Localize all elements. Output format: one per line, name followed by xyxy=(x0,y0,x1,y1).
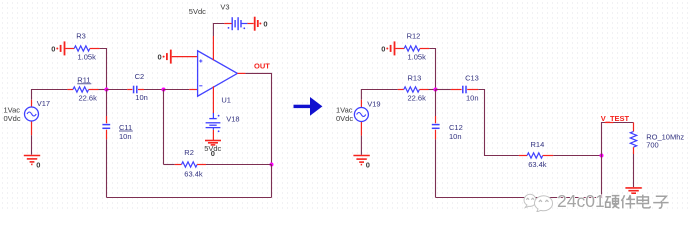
svg-text:V_TEST: V_TEST xyxy=(601,114,630,123)
resistor RO_10Mhz (vertical) xyxy=(633,123,635,132)
wire V17 top to R11 (node at main line y=89.5) xyxy=(32,90,68,100)
svg-text:0: 0 xyxy=(51,44,55,53)
svg-text:R2: R2 xyxy=(184,148,194,157)
svg-text:R3: R3 xyxy=(76,31,86,40)
voltage source V19 xyxy=(354,100,368,136)
junction node V_TEST xyxy=(600,154,604,158)
voltage source V17 xyxy=(25,100,39,135)
svg-text:C12: C12 xyxy=(449,123,463,132)
wire R2 to output node xyxy=(206,164,272,166)
capacitor C2 xyxy=(127,89,132,91)
battery V18 (vertical) xyxy=(212,113,214,118)
svg-text:R13: R13 xyxy=(408,74,422,83)
bottom rail xyxy=(107,197,272,199)
wire node C to C13 xyxy=(436,89,451,91)
wire RO down to ground xyxy=(633,154,635,187)
svg-text:63.4k: 63.4k xyxy=(528,160,547,169)
wire V17 bottom to ground xyxy=(31,135,33,154)
svg-text:10n: 10n xyxy=(119,132,132,141)
ground 0 at op-amp + input (rotated) xyxy=(167,50,171,64)
svg-text:0Vdc: 0Vdc xyxy=(4,114,21,123)
svg-text:5Vdc: 5Vdc xyxy=(189,7,206,16)
ground 0 below V19 xyxy=(353,156,369,165)
capacitor C11 (vertical) xyxy=(106,90,108,117)
junction node C xyxy=(434,88,438,92)
capacitor C13 xyxy=(451,89,462,91)
svg-text:0: 0 xyxy=(366,160,370,169)
feedback wire to R2 xyxy=(164,164,175,166)
svg-text:V3: V3 xyxy=(220,2,229,11)
resistor R14 xyxy=(519,153,553,158)
svg-text:0Vdc: 0Vdc xyxy=(336,114,353,123)
svg-text:0: 0 xyxy=(36,160,40,169)
wire ground to + input xyxy=(172,56,197,58)
ground 0 right of V3 (rotated) xyxy=(255,17,258,31)
svg-text:0: 0 xyxy=(158,53,162,62)
hanzi 电 xyxy=(637,195,650,208)
wire junction down to rail xyxy=(436,156,602,198)
svg-text:10n: 10n xyxy=(449,132,462,141)
svg-text:R11: R11 xyxy=(77,76,90,85)
svg-text:U1: U1 xyxy=(221,96,231,105)
resistor R12 xyxy=(395,46,429,51)
svg-text:V18: V18 xyxy=(226,115,239,124)
op-amp V- wire down to V18 xyxy=(212,86,214,113)
wire node B to op-amp inverting input xyxy=(164,89,190,91)
watermark hanzi 硬件电子 (drawn strokes) xyxy=(605,195,668,209)
svg-text:0: 0 xyxy=(263,20,267,29)
svg-text:C2: C2 xyxy=(135,72,145,81)
svg-text:22.6k: 22.6k xyxy=(79,93,98,102)
svg-text:V19: V19 xyxy=(367,100,380,109)
svg-text:R14: R14 xyxy=(531,140,545,149)
svg-text:22.6k: 22.6k xyxy=(408,93,427,102)
svg-text:24c01: 24c01 xyxy=(557,191,605,211)
svg-text:C11: C11 xyxy=(119,123,132,132)
wire C2 to node B xyxy=(144,89,164,91)
junction node B xyxy=(162,88,166,92)
hanzi 硬 xyxy=(605,196,619,209)
junction output node xyxy=(270,163,274,167)
wire node B down to R2 xyxy=(163,90,165,165)
ground 0 at R12 input (rotated) xyxy=(391,41,395,55)
wire V19 bottom to ground xyxy=(360,136,362,155)
battery V3 (horizontal) xyxy=(224,23,231,25)
svg-text:0: 0 xyxy=(381,44,385,53)
wire R12 down to node C xyxy=(429,49,435,90)
resistor R3 xyxy=(65,46,99,51)
svg-text:0: 0 xyxy=(211,149,215,158)
op-amp V+ wire up to V3 xyxy=(212,36,214,60)
wire output node down to rail xyxy=(271,165,273,198)
svg-text:V17: V17 xyxy=(37,99,50,108)
hanzi 子 xyxy=(653,196,668,208)
wire R13 to node C xyxy=(429,89,436,91)
resistor R13 xyxy=(398,87,429,92)
svg-text:1.05k: 1.05k xyxy=(78,52,97,61)
wire C12 down to bottom rail xyxy=(435,139,437,197)
svg-text:10n: 10n xyxy=(135,93,148,102)
blue arrow xyxy=(294,97,323,116)
wire R3 down to node A xyxy=(100,49,107,90)
resistor R11 xyxy=(67,87,98,92)
wire C11 down to bottom rail xyxy=(106,139,108,197)
op-amp U1 xyxy=(198,51,238,96)
svg-text:OUT: OUT xyxy=(254,61,270,70)
op-amp - mark xyxy=(199,85,202,87)
svg-text:R12: R12 xyxy=(407,31,421,40)
ground 0 below V18 xyxy=(205,141,221,145)
output wire OUT xyxy=(237,72,245,74)
ground 0 below V17 xyxy=(24,156,40,165)
ground 0 below RO xyxy=(625,188,641,193)
junction node A xyxy=(105,88,109,92)
resistor R2 xyxy=(175,162,206,167)
wire junction up and right to RO xyxy=(602,123,634,156)
svg-text:C13: C13 xyxy=(465,74,479,83)
svg-text:63.4k: 63.4k xyxy=(184,169,203,178)
wire V19 top to R13 xyxy=(361,90,397,100)
op-amp + mark xyxy=(199,59,202,62)
watermark logo bubbles xyxy=(524,194,553,212)
ground 0 at R3 input (rotated) xyxy=(61,41,65,55)
svg-text:10n: 10n xyxy=(466,93,479,102)
svg-text:1.05k: 1.05k xyxy=(408,52,427,61)
wire R11 to node A xyxy=(99,89,107,91)
wire C13 down to R14 row xyxy=(478,90,519,156)
capacitor C12 (vertical) xyxy=(435,90,437,117)
svg-text:700: 700 xyxy=(646,141,659,150)
hanzi 件 xyxy=(621,195,635,209)
wire R14 to node V_TEST junction xyxy=(553,155,601,157)
wire node A to C2 xyxy=(107,89,128,91)
